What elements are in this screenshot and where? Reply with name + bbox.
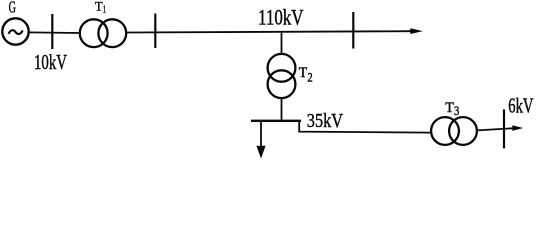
svg-text:2: 2 [307, 71, 312, 85]
generator G [2, 18, 28, 44]
svg-text:110kV: 110kV [258, 4, 304, 29]
wire T2 to 35kV bus [281, 98, 283, 120]
svg-text:T: T [445, 100, 454, 116]
wire 110kV line to T2 [281, 32, 283, 55]
load arrow down from 35kV bus [256, 121, 265, 159]
svg-text:G: G [9, 0, 16, 17]
transformer T2 [268, 54, 296, 98]
label T3 [445, 100, 459, 118]
bus tick right of T2 tap [352, 12, 354, 49]
svg-text:3: 3 [454, 104, 459, 118]
wire 35kV bus to T3 [299, 121, 431, 133]
bus tick right of T1 [154, 14, 156, 49]
transformer T3 [431, 117, 477, 145]
bus tick between G and T1 [51, 14, 53, 49]
wire T3 to 6kV arrow [477, 128, 513, 130]
svg-text:10kV: 10kV [34, 50, 67, 74]
bus tick 6kV [503, 109, 505, 148]
svg-text:35kV: 35kV [307, 110, 344, 132]
arrow 6kV load [512, 125, 523, 131]
svg-text:1: 1 [103, 3, 106, 15]
arrow at right end of 110kV line [410, 28, 423, 34]
svg-text:T: T [95, 0, 103, 13]
wire 110kV line from T1 to arrow [126, 31, 412, 32]
transformer T1 [80, 19, 126, 47]
label T1 [95, 0, 106, 15]
wire generator to T1 [29, 31, 80, 34]
svg-text:T: T [299, 65, 307, 81]
label T2 [299, 65, 313, 85]
svg-text:6kV: 6kV [508, 93, 533, 117]
bus 35kV [251, 120, 301, 122]
